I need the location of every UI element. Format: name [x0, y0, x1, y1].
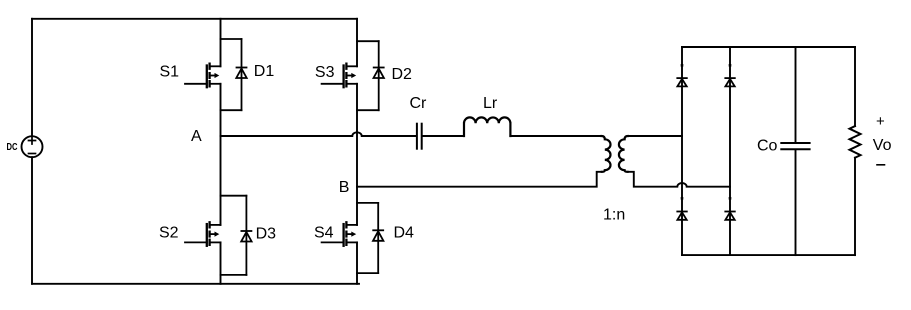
transformer T1 secondary winding	[619, 136, 628, 172]
wire rectifier bottom rail	[682, 254, 855, 256]
svg-text:+: +	[876, 113, 885, 130]
svg-text:D2: D2	[392, 66, 413, 83]
wire load branch upper	[854, 47, 856, 126]
junction dot right leg lower	[729, 197, 732, 200]
wire left rail upper	[31, 19, 33, 136]
transistor S4	[322, 222, 357, 246]
wire right leg lower	[356, 242, 358, 283]
svg-text:Co: Co	[757, 137, 778, 154]
resistor load	[850, 126, 861, 158]
capacitor Co	[781, 143, 809, 149]
transistor S1	[185, 64, 221, 87]
svg-text:Vo: Vo	[873, 137, 892, 154]
junction dot left leg upper	[681, 64, 684, 67]
inductor Lr	[464, 117, 510, 136]
wire Cr to Lr	[423, 135, 464, 137]
wire bottom rail	[32, 283, 359, 285]
wire node B to primary bottom	[357, 172, 602, 187]
transistor S3	[322, 64, 357, 87]
wire left leg upper	[220, 19, 222, 67]
wire load branch lower	[854, 158, 856, 255]
label minus	[877, 164, 885, 166]
wire right leg upper	[356, 19, 358, 67]
svg-text:1:n: 1:n	[603, 206, 625, 223]
wire right leg middle	[356, 84, 358, 225]
junction dot right leg upper	[729, 64, 732, 67]
wire secondary bottom with hop over left rectifier leg	[628, 172, 730, 187]
svg-text:S3: S3	[315, 64, 335, 81]
svg-text:Cr: Cr	[410, 95, 428, 112]
rectifier diode bottom-right	[725, 212, 735, 220]
wire rectifier left leg	[681, 47, 683, 255]
wire rectifier top rail	[682, 46, 855, 48]
wire secondary top to rectifier	[628, 135, 682, 137]
diode D1	[221, 39, 247, 110]
svg-text:D3: D3	[256, 225, 277, 242]
rectifier diode top-right	[725, 78, 735, 86]
capacitor Cr	[417, 124, 422, 149]
svg-text:DC: DC	[7, 141, 18, 153]
svg-text:S2: S2	[159, 225, 179, 242]
wire top rail	[32, 18, 357, 20]
diode D4	[357, 203, 383, 273]
rectifier diode top-left	[677, 78, 687, 86]
junction dot left leg lower	[681, 197, 684, 200]
svg-text:B: B	[339, 179, 350, 196]
wire Co branch upper	[795, 47, 797, 143]
svg-text:D1: D1	[254, 63, 275, 80]
transformer T1 primary winding	[602, 136, 611, 172]
diode D2	[357, 41, 384, 110]
transistor S2	[185, 222, 221, 246]
wire left leg lower	[220, 242, 222, 283]
svg-text:A: A	[191, 128, 202, 145]
svg-text:S4: S4	[314, 225, 334, 242]
diode D3	[221, 196, 252, 275]
svg-text:D4: D4	[394, 224, 415, 241]
svg-text:Lr: Lr	[483, 95, 498, 112]
dc source DC	[7, 136, 43, 157]
wire Co branch lower	[795, 150, 797, 255]
wire rectifier right leg	[729, 47, 731, 255]
wire left rail lower	[31, 157, 33, 284]
svg-text:S1: S1	[160, 64, 180, 81]
wire node A with hop over right leg	[221, 132, 417, 136]
wire Lr to transformer primary	[510, 135, 601, 137]
wire left leg middle (node A to S2)	[220, 84, 222, 225]
rectifier diode bottom-left	[677, 212, 687, 220]
